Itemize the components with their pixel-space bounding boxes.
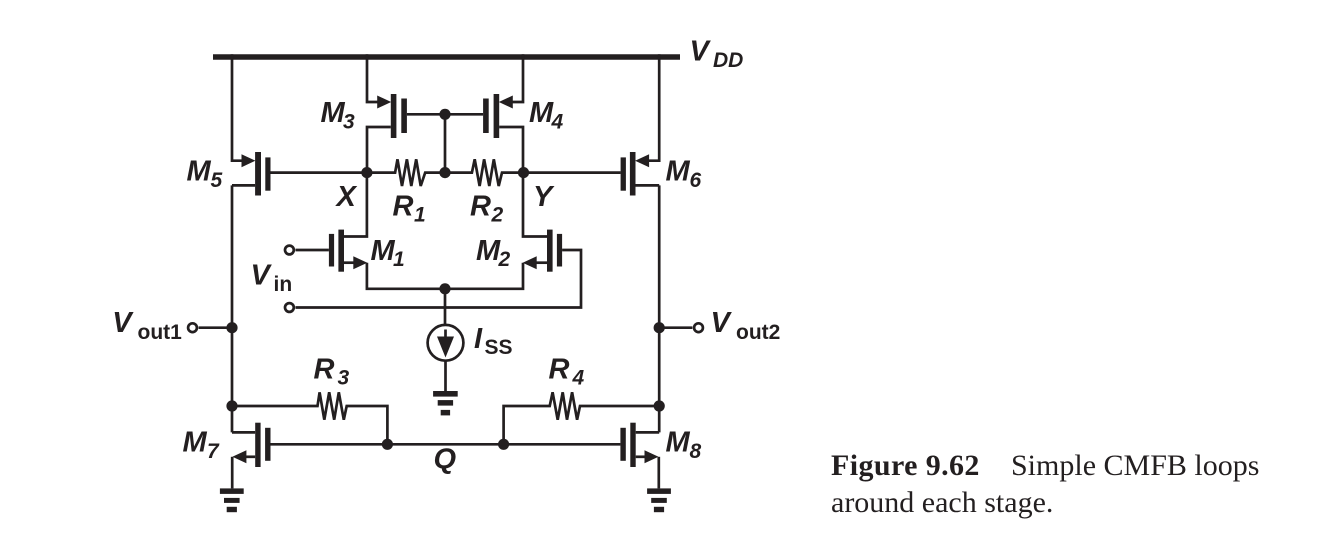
- wire node Q gate line: [271, 443, 621, 446]
- svg-text:V: V: [251, 260, 273, 292]
- svg-text:out2: out2: [736, 321, 780, 344]
- terminal Vin lower: [285, 303, 294, 312]
- node midpoint R1-R2: [439, 167, 450, 178]
- wire VDD to M4 source: [511, 54, 523, 102]
- svg-text:Q: Q: [434, 444, 457, 476]
- power rail VDD: [213, 54, 680, 60]
- transistor M6: [524, 152, 660, 196]
- wire tail to ISS: [444, 289, 447, 325]
- resistor R4: [504, 392, 660, 444]
- node R3 left junction: [226, 400, 237, 411]
- node X: [361, 167, 372, 178]
- node gate of M3-M4: [439, 109, 450, 120]
- wire Vout2: [659, 326, 692, 329]
- svg-text:out1: out1: [138, 321, 183, 344]
- wire M6 drain down right rail: [658, 185, 661, 432]
- svg-text:8: 8: [690, 440, 702, 463]
- wire ISS to ground: [444, 361, 447, 392]
- svg-text:V: V: [690, 36, 712, 68]
- wire Vin to M1 gate: [296, 249, 329, 252]
- wire VDD to M3 source: [367, 54, 379, 102]
- svg-text:M: M: [666, 426, 691, 458]
- resistor R1: [367, 159, 445, 186]
- svg-text:around each stage.: around each stage.: [831, 486, 1053, 519]
- terminal Vin upper: [285, 246, 294, 255]
- wire M5 drain down left rail: [231, 185, 234, 432]
- resistor R2: [445, 159, 524, 186]
- svg-text:in: in: [274, 273, 293, 296]
- svg-text:V: V: [112, 307, 134, 339]
- ground under M8: [647, 488, 671, 512]
- transistor M3: [367, 94, 445, 173]
- terminal Vout1: [188, 323, 197, 332]
- node Q right junction: [498, 439, 509, 450]
- node Y: [518, 167, 529, 178]
- ground under M7: [220, 488, 244, 512]
- wire VDD to M5 source: [232, 54, 243, 160]
- svg-text:6: 6: [690, 169, 702, 192]
- ground under ISS: [433, 391, 458, 415]
- svg-text:SS: SS: [485, 336, 513, 359]
- wire Vout1: [199, 326, 232, 329]
- svg-text:4: 4: [551, 111, 564, 134]
- svg-text:M: M: [476, 235, 501, 267]
- svg-text:Y: Y: [533, 181, 555, 213]
- svg-text:R: R: [314, 353, 335, 385]
- transistor M2: [445, 173, 562, 289]
- resistor R3: [232, 392, 387, 444]
- current source ISS: [428, 325, 464, 361]
- svg-text:M: M: [183, 426, 208, 458]
- svg-text:M: M: [371, 235, 396, 267]
- svg-text:R: R: [470, 191, 491, 223]
- svg-text:V: V: [711, 307, 733, 339]
- node Vout2 junction: [654, 322, 665, 333]
- svg-text:R: R: [393, 191, 414, 223]
- svg-text:M: M: [187, 156, 212, 188]
- svg-text:X: X: [335, 181, 358, 213]
- wire Vin lower to M2 gate: [296, 250, 582, 308]
- node tail of M1-M2: [439, 283, 450, 294]
- svg-text:5: 5: [211, 169, 223, 192]
- svg-text:Figure 9.62: Figure 9.62: [831, 449, 980, 482]
- svg-text:2: 2: [498, 248, 511, 271]
- transistor M7: [232, 423, 271, 489]
- svg-text:3: 3: [338, 366, 350, 389]
- svg-text:M: M: [666, 156, 691, 188]
- transistor M8: [620, 423, 659, 489]
- svg-text:7: 7: [207, 440, 220, 463]
- svg-text:I: I: [474, 323, 483, 355]
- svg-text:Simple CMFB loops: Simple CMFB loops: [1011, 449, 1259, 482]
- svg-text:DD: DD: [713, 49, 743, 72]
- svg-text:M: M: [529, 97, 554, 129]
- transistor M5: [232, 152, 367, 196]
- node R4 right junction: [654, 400, 665, 411]
- wire gate node to resistor midpoint: [444, 114, 447, 172]
- svg-text:M: M: [321, 97, 346, 129]
- svg-text:2: 2: [491, 203, 504, 226]
- transistor M1: [329, 173, 445, 289]
- node Q left junction: [382, 439, 393, 450]
- svg-text:R: R: [549, 353, 570, 385]
- terminal Vout2: [694, 323, 703, 332]
- svg-text:4: 4: [572, 366, 585, 389]
- svg-text:1: 1: [393, 248, 405, 271]
- transistor M4: [445, 94, 523, 173]
- wire VDD to M6 source: [649, 54, 660, 160]
- svg-text:1: 1: [414, 203, 426, 226]
- svg-text:3: 3: [343, 111, 355, 134]
- node Vout1 junction: [226, 322, 237, 333]
